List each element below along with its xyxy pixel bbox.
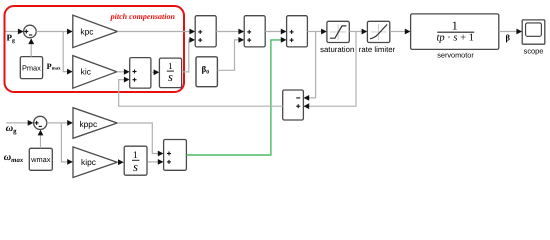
svg-text:s: s — [168, 70, 173, 84]
wire rate limiter to servomotor — [390, 29, 411, 35]
block Pmax — [20, 57, 42, 79]
svg-text:Pmax: Pmax — [47, 62, 62, 71]
block beta0 — [196, 57, 217, 87]
sum A2 — [244, 16, 265, 47]
block rate limiter — [359, 21, 396, 54]
wire omega_g to sum S3 — [6, 120, 33, 126]
svg-text:servomotor: servomotor — [437, 51, 474, 60]
svg-text:Pg: Pg — [7, 33, 16, 45]
svg-text:saturation: saturation — [320, 45, 354, 54]
block wmax — [29, 148, 52, 170]
wire S2 to integrator I1 — [151, 69, 159, 75]
svg-text:s: s — [133, 160, 138, 174]
wire branch down to gain kic — [63, 32, 72, 75]
wire Pg to sum S1 — [6, 29, 24, 35]
svg-text:kppc: kppc — [79, 119, 97, 129]
wire wmax to S3 — [38, 130, 44, 149]
node Pmax label — [47, 62, 62, 71]
sum S1 circle — [24, 25, 37, 38]
wire I1 up to sum A1 — [182, 37, 195, 72]
gain kpc — [73, 15, 118, 47]
svg-text:Pmax: Pmax — [22, 63, 41, 72]
svg-text:kipc: kipc — [81, 157, 96, 167]
svg-text:tp · s + 1: tp · s + 1 — [436, 33, 473, 44]
integrator I1 1/s — [159, 58, 181, 88]
svg-text:scope: scope — [524, 46, 544, 55]
sum S2 (after kic) — [130, 58, 151, 89]
wire I2 to sum A4 — [147, 159, 163, 165]
wire S3 to gain kppc — [47, 120, 73, 126]
wire kppc to sum A4 — [117, 123, 163, 156]
gain kipc — [73, 147, 117, 178]
svg-text:rate limiter: rate limiter — [359, 45, 396, 54]
wire servomotor to scope — [499, 29, 522, 35]
sum antiwindup AW (flipped) — [283, 90, 304, 120]
wire tap down to antiwindup plus input — [304, 32, 357, 110]
gain kppc — [73, 108, 117, 139]
wire S1 to gain kpc — [36, 29, 72, 35]
node Pg — [7, 33, 16, 45]
wire A2 to A3 — [265, 29, 286, 35]
title pitch compensation — [110, 12, 176, 21]
wire A3 to saturation — [307, 29, 326, 35]
svg-text:ωg: ωg — [6, 123, 17, 135]
svg-text:pitch compensation: pitch compensation — [110, 12, 176, 21]
svg-text:kpc: kpc — [80, 26, 93, 36]
block saturation — [320, 21, 354, 54]
node omega_g — [6, 123, 17, 135]
wire branch down to gain kipc — [61, 123, 73, 165]
wire A1 to A2 — [216, 29, 244, 35]
wire kpc to sum A1 — [117, 29, 195, 35]
block servomotor transfer function — [411, 14, 499, 60]
green wire A4 to sum A3 — [186, 37, 286, 155]
sum A4 — [164, 140, 187, 171]
wire AW output to sum S2 — [119, 77, 283, 107]
wire beta0 to sum A2 — [217, 37, 244, 70]
node beta label — [506, 33, 511, 43]
node omega_max — [4, 152, 24, 164]
red frame pitch compensation subsystem — [5, 6, 185, 92]
svg-text:wmax: wmax — [30, 155, 51, 164]
sum A1 — [195, 16, 216, 47]
svg-text:1: 1 — [452, 18, 458, 32]
wire Pmax to S1 — [28, 38, 34, 56]
gain kic — [73, 56, 117, 89]
wire kipc to integrator I2 — [117, 159, 124, 165]
wire kic to S2 — [117, 69, 130, 75]
integrator I2 1/s — [124, 146, 147, 175]
svg-text:ωmax: ωmax — [4, 152, 24, 164]
svg-text:kic: kic — [81, 67, 91, 77]
block scope — [522, 20, 545, 56]
wire tap down to antiwindup minus input — [304, 32, 316, 101]
sum A3 — [287, 16, 308, 47]
wire saturation to rate limiter — [349, 29, 367, 35]
sum S3 circle — [34, 116, 47, 129]
svg-text:β: β — [506, 33, 511, 43]
